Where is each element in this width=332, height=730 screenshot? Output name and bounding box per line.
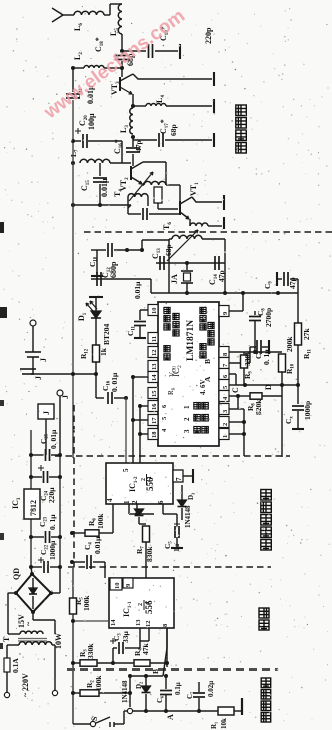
- svg-text:0.1A: 0.1A: [11, 658, 20, 673]
- svg-text:A: A: [166, 714, 175, 720]
- svg-text:J: J: [34, 376, 43, 380]
- svg-text:200k: 200k: [285, 336, 294, 352]
- svg-text:330k: 330k: [243, 350, 252, 366]
- svg-text:68p: 68p: [164, 244, 173, 256]
- svg-text:13: 13: [151, 363, 158, 370]
- svg-text:J: J: [39, 358, 48, 362]
- svg-text:10W: 10W: [54, 633, 63, 649]
- svg-text:12: 12: [145, 621, 152, 628]
- svg-text:1N4148: 1N4148: [121, 680, 129, 703]
- svg-text:2: 2: [138, 603, 144, 606]
- svg-text:18: 18: [151, 431, 158, 438]
- svg-text:47p: 47p: [134, 140, 143, 152]
- svg-text:100k: 100k: [82, 595, 91, 611]
- svg-text:6: 6: [157, 500, 165, 504]
- svg-text:1000p: 1000p: [303, 401, 312, 420]
- svg-text:T: T: [2, 636, 11, 642]
- svg-text:J: J: [42, 411, 51, 415]
- svg-text:0. 01μ: 0. 01μ: [110, 372, 119, 392]
- svg-text:0. 1μ: 0. 1μ: [48, 514, 57, 530]
- svg-text:1k: 1k: [99, 347, 108, 356]
- svg-text:1: 1: [123, 500, 131, 504]
- svg-text:0. 01μ: 0. 01μ: [49, 429, 58, 449]
- svg-text:S: S: [90, 716, 99, 721]
- svg-text:17: 17: [151, 417, 158, 424]
- svg-text:47p: 47p: [217, 270, 226, 282]
- svg-text:14: 14: [110, 619, 117, 626]
- svg-text:13: 13: [135, 619, 142, 626]
- svg-text:47k: 47k: [141, 643, 150, 656]
- svg-text:A: A: [203, 376, 212, 382]
- svg-text:16: 16: [151, 403, 158, 410]
- svg-text:10: 10: [151, 308, 158, 315]
- svg-text:2700p: 2700p: [264, 308, 273, 327]
- svg-text:33μ: 33μ: [121, 631, 130, 644]
- svg-text:220p: 220p: [204, 27, 213, 44]
- svg-text:0.02μ: 0.02μ: [207, 681, 215, 697]
- svg-text:100k: 100k: [96, 513, 105, 529]
- svg-text:11: 11: [151, 336, 158, 342]
- svg-text:220V: 220V: [21, 673, 30, 691]
- svg-text:27k: 27k: [302, 328, 311, 341]
- svg-text:0. 1μ: 0. 1μ: [262, 349, 271, 365]
- svg-text:J: J: [61, 395, 70, 399]
- svg-text:2: 2: [131, 500, 139, 504]
- svg-text:5: 5: [122, 468, 130, 472]
- svg-text:LM1871N: LM1871N: [186, 320, 196, 361]
- svg-text:68p: 68p: [169, 124, 178, 136]
- svg-text:10: 10: [114, 583, 121, 590]
- svg-text:B: B: [203, 359, 212, 364]
- svg-text:7812: 7812: [29, 500, 38, 516]
- svg-text:14: 14: [151, 374, 158, 381]
- svg-text:1: 1: [147, 476, 153, 479]
- svg-text:B: B: [151, 669, 160, 674]
- svg-text:3: 3: [183, 429, 191, 433]
- svg-text:7: 7: [175, 477, 183, 481]
- svg-text:JA: JA: [170, 274, 179, 284]
- svg-text:100μ: 100μ: [87, 113, 96, 130]
- svg-text:QD: QD: [12, 568, 21, 580]
- svg-text:1: 1: [145, 601, 151, 604]
- svg-text:12: 12: [151, 350, 158, 357]
- svg-text:15: 15: [151, 390, 158, 397]
- svg-text:0.1μ: 0.1μ: [174, 682, 182, 695]
- svg-text:D: D: [264, 384, 273, 390]
- svg-text:100k: 100k: [94, 675, 103, 691]
- svg-text:0.01μ: 0.01μ: [133, 281, 142, 299]
- svg-text:0.01μ: 0.01μ: [100, 178, 109, 197]
- svg-text:0.01μ: 0.01μ: [93, 536, 102, 554]
- svg-text:4: 4: [106, 498, 114, 502]
- svg-text:2: 2: [183, 417, 191, 421]
- svg-text:680p: 680p: [109, 261, 118, 278]
- svg-text:1N4148: 1N4148: [184, 505, 192, 528]
- svg-text:C: C: [231, 387, 240, 393]
- svg-text:10k: 10k: [220, 718, 228, 729]
- svg-text:1000μ: 1000μ: [48, 540, 57, 560]
- svg-text:BT204: BT204: [102, 323, 111, 345]
- svg-text:2: 2: [222, 423, 229, 426]
